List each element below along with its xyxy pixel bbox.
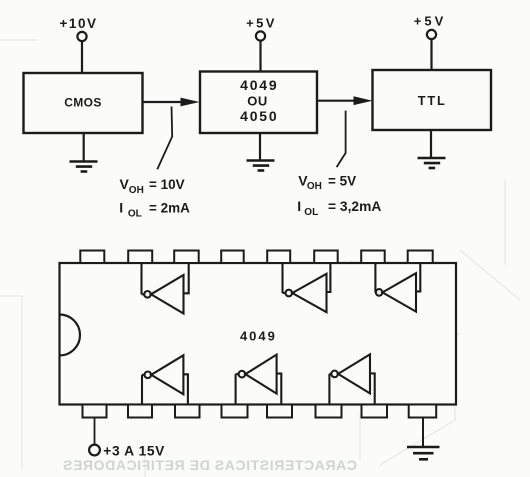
- svg-text:I: I: [119, 200, 123, 216]
- svg-text:CMOS: CMOS: [64, 96, 102, 110]
- inverter U1F: [329, 354, 374, 404]
- pin bottom 2: [128, 405, 152, 418]
- leader line VOH=10V: [157, 107, 172, 170]
- block TTL: [373, 70, 492, 130]
- ground TTL: [418, 158, 446, 168]
- inverter U1D: [142, 355, 188, 404]
- svg-text:OH: OH: [307, 181, 322, 192]
- wire pin8 to ground: [422, 418, 424, 448]
- svg-text:TTL: TTL: [418, 93, 447, 108]
- wire 4049 to ground: [259, 133, 261, 161]
- pin top 7: [361, 251, 385, 264]
- pin top 2: [128, 251, 152, 264]
- svg-text:4049: 4049: [240, 77, 278, 93]
- pin top 6: [314, 251, 338, 264]
- ground 4049: [247, 161, 275, 171]
- svg-text:OL: OL: [128, 208, 142, 219]
- svg-text:OH: OH: [129, 185, 144, 196]
- ground IC: [407, 447, 440, 459]
- wire CMOS to ground: [83, 133, 85, 162]
- pin top 1: [80, 251, 104, 264]
- wire pin1 to supply terminal: [94, 418, 96, 445]
- supply terminal +3 A 15V: [89, 445, 100, 456]
- power +5V terminal (4049): [256, 31, 265, 40]
- svg-text:4050: 4050: [240, 108, 278, 124]
- wire +5V to TTL: [430, 39, 432, 70]
- svg-text:OL: OL: [304, 207, 318, 218]
- IC notch: [60, 315, 81, 356]
- block 4049 OU 4050: [200, 72, 317, 134]
- svg-text:+3 A 15V: +3 A 15V: [103, 444, 165, 459]
- pin top 5: [267, 251, 290, 264]
- svg-text:4049: 4049: [240, 329, 277, 344]
- svg-text:+5V: +5V: [246, 16, 277, 31]
- wire +10V to CMOS: [81, 41, 83, 73]
- wire 4049 to TTL with arrow: [317, 100, 356, 102]
- svg-text:= 3,2mA: = 3,2mA: [328, 199, 381, 214]
- pin top 3: [174, 251, 199, 264]
- svg-text:= 5V: = 5V: [328, 174, 356, 189]
- pin bottom 6: [316, 405, 342, 418]
- power +10V terminal: [77, 32, 86, 41]
- wire CMOS to 4049 with arrow: [143, 101, 184, 103]
- ground CMOS: [70, 162, 98, 172]
- pin bottom 1: [83, 405, 107, 418]
- pin bottom 3: [175, 405, 200, 418]
- wire +5V to 4049: [259, 41, 261, 72]
- inverter U1B: [283, 263, 331, 312]
- inverter U1A: [142, 263, 189, 314]
- inverter U1E: [236, 355, 282, 405]
- pin top 4: [221, 251, 244, 264]
- pin bottom 4: [222, 405, 248, 418]
- leader line VOH=5V: [337, 111, 346, 168]
- pin bottom 8: [409, 405, 437, 418]
- block CMOS: [24, 73, 143, 133]
- svg-text:I: I: [297, 198, 301, 214]
- pin top 8: [408, 251, 433, 264]
- pin bottom 7: [362, 405, 388, 418]
- svg-text:= 2mA: = 2mA: [149, 201, 190, 216]
- inverter U1C: [375, 263, 420, 312]
- pin bottom 5: [267, 405, 292, 418]
- IC 4049 body: [60, 263, 457, 405]
- svg-text:OU: OU: [247, 94, 268, 109]
- wire TTL to ground: [430, 130, 432, 158]
- svg-text:= 10V: = 10V: [149, 177, 185, 192]
- svg-text:CARACTERISTICAS DE RETIFICADOR: CARACTERISTICAS DE RETIFICADORES: [62, 457, 357, 473]
- power +5V terminal (TTL): [427, 30, 436, 39]
- svg-text:+10V: +10V: [60, 16, 98, 31]
- svg-text:+5V: +5V: [414, 14, 447, 29]
